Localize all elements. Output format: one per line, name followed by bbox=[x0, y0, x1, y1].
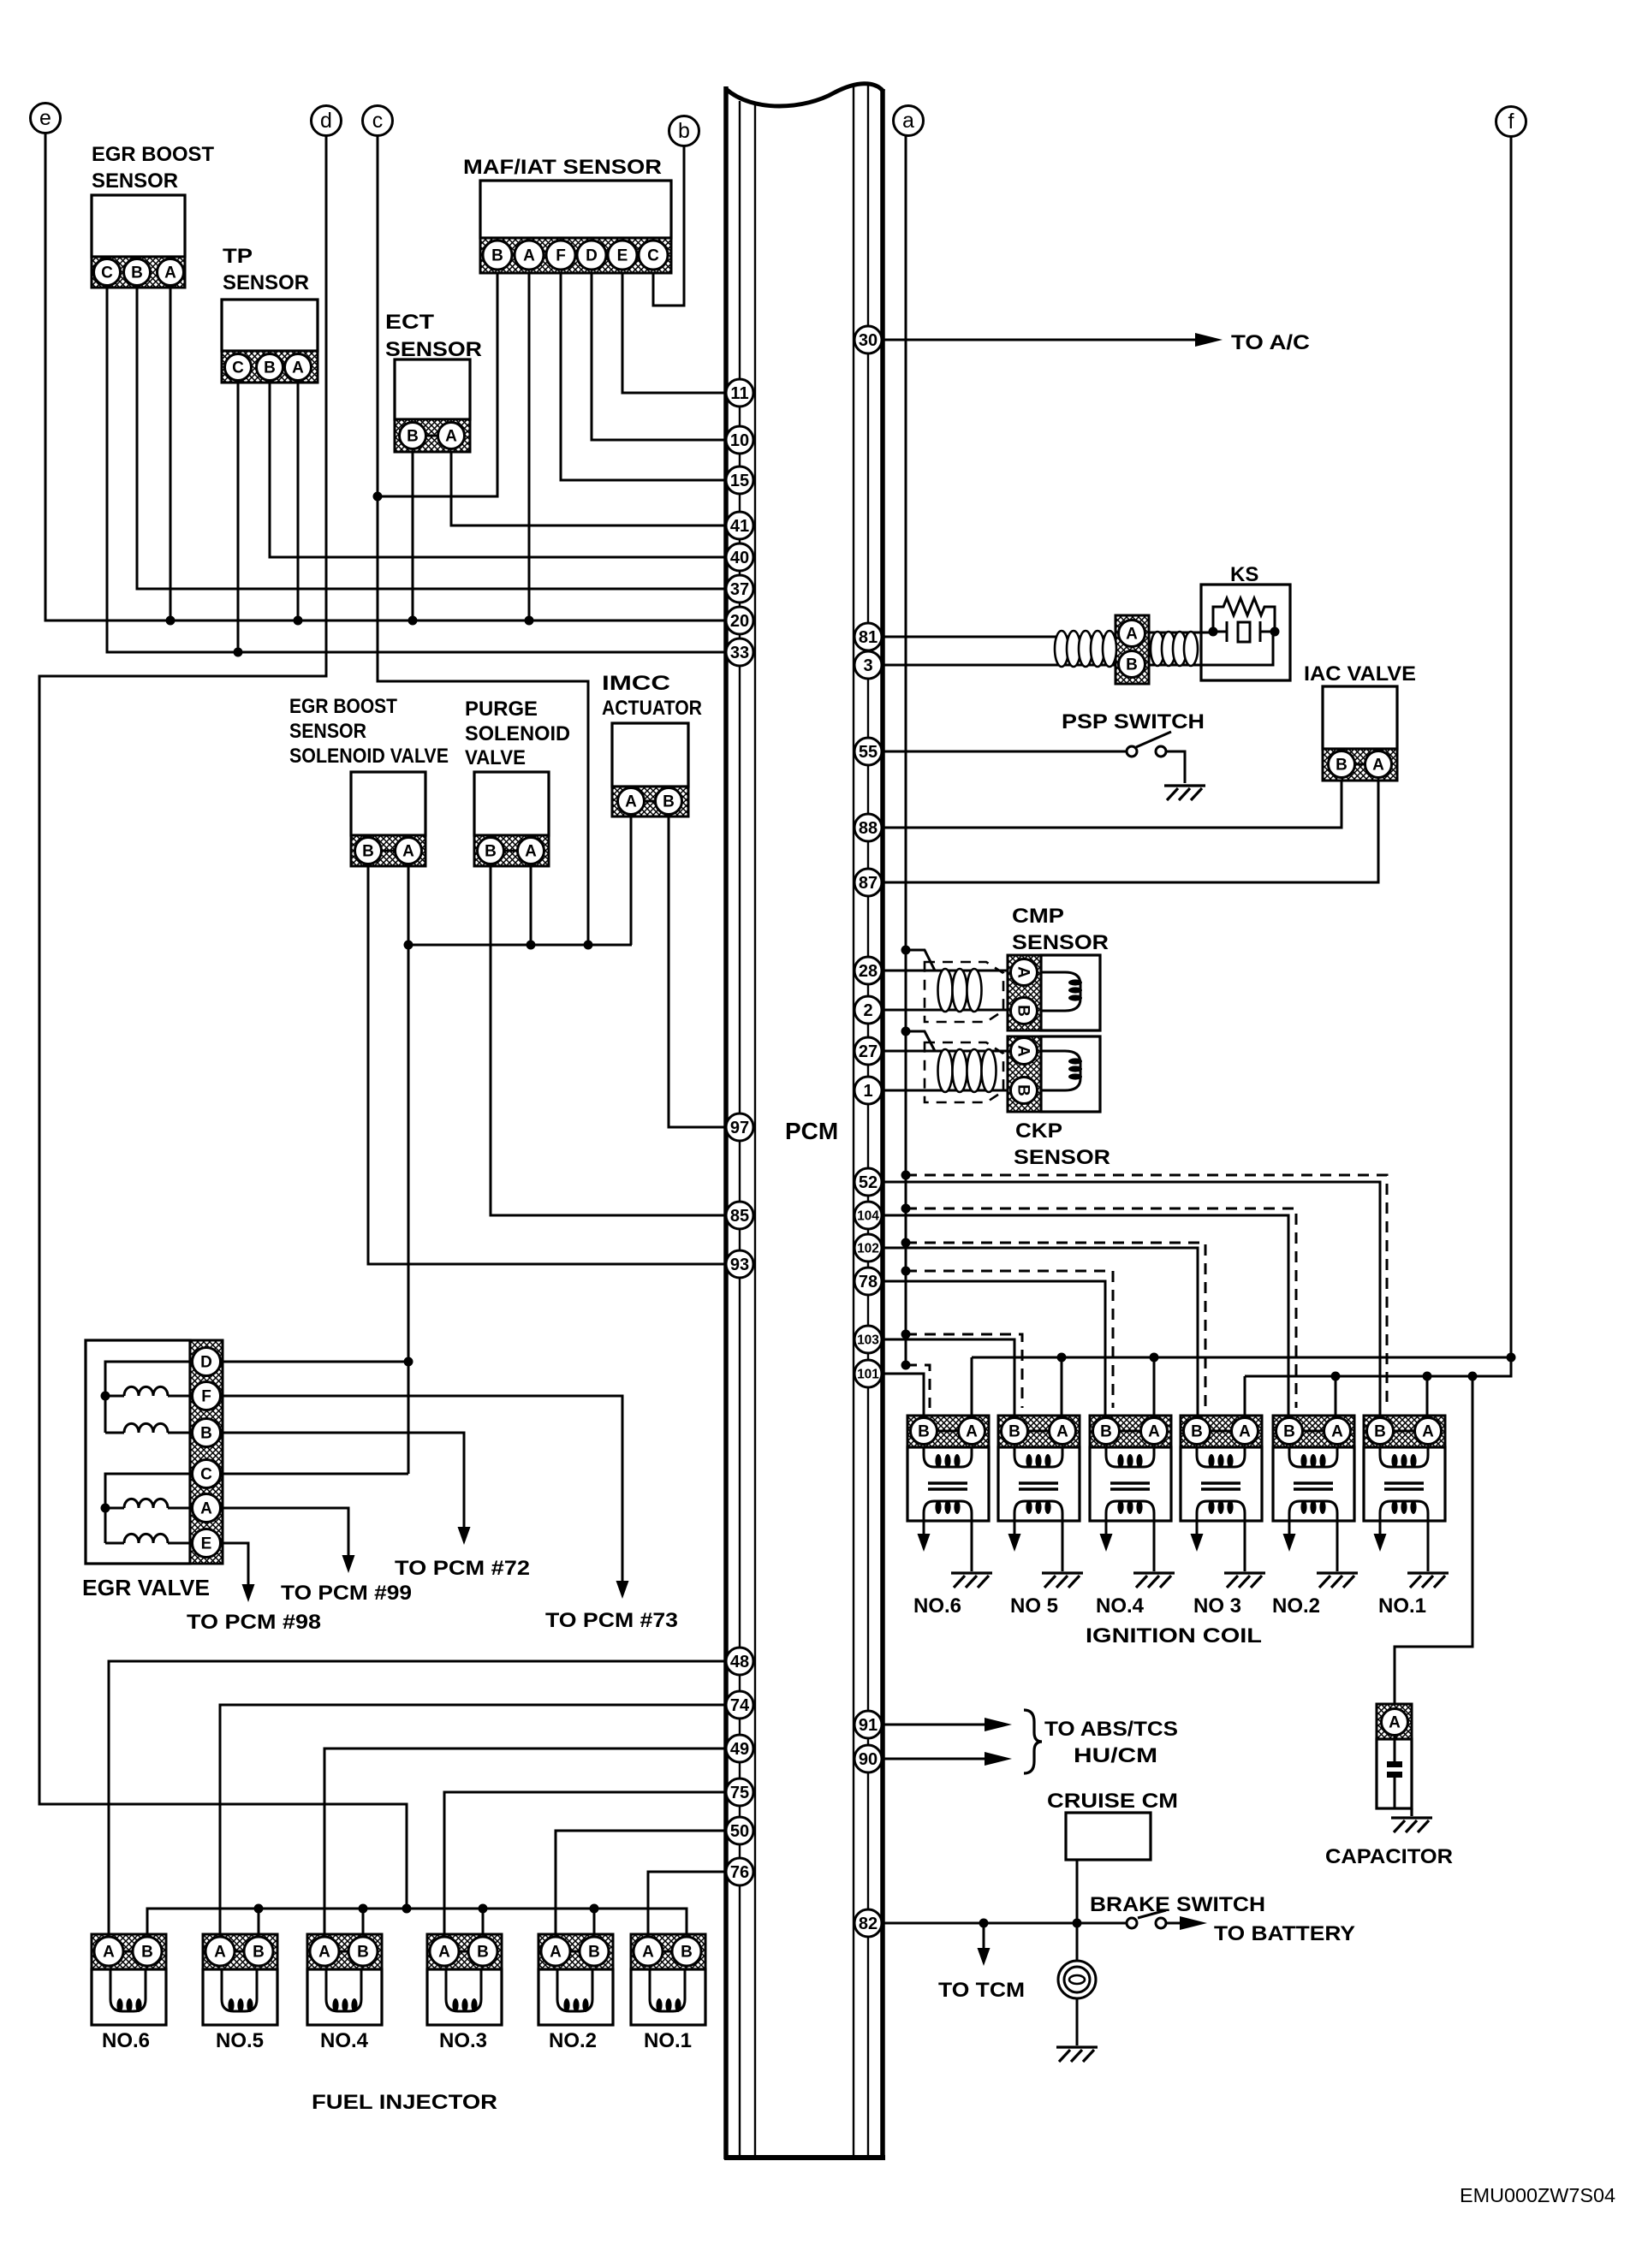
svg-text:A: A bbox=[523, 247, 535, 265]
PCM pin 91 bbox=[854, 1711, 882, 1738]
PCM pin 10 bbox=[726, 426, 753, 454]
ignition coil NO.2 ground bbox=[1317, 1571, 1358, 1574]
wire shield bus to CMP A bbox=[906, 950, 935, 971]
svg-text:NO.1: NO.1 bbox=[644, 2029, 692, 2052]
ignition coil NO.1 ground bbox=[1407, 1571, 1449, 1574]
svg-text:FUEL INJECTOR: FUEL INJECTOR bbox=[312, 2091, 497, 2114]
svg-text:PSP SWITCH: PSP SWITCH bbox=[1062, 710, 1205, 733]
wire PCM pin 103 to ignition coil bbox=[882, 1339, 1014, 1418]
svg-text:B: B bbox=[1336, 757, 1348, 775]
CMP SENSOR pin A bbox=[1011, 959, 1038, 986]
shield conduit right of KS connector bbox=[1151, 632, 1164, 666]
fuel injector NO.5 body bbox=[203, 1969, 277, 2025]
svg-text:HU/CM: HU/CM bbox=[1074, 1744, 1157, 1767]
PURGE SOLENOID VALVE connector strip bbox=[474, 835, 549, 866]
svg-text:ACTUATOR: ACTUATOR bbox=[602, 697, 702, 720]
wire bus1 to coil NO.6 A bbox=[971, 1357, 973, 1418]
CKP SENSOR connector strip bbox=[1008, 1036, 1041, 1112]
svg-text:A: A bbox=[292, 359, 304, 377]
svg-text:74: 74 bbox=[730, 1696, 750, 1715]
wire PCM pin 88 to IAC B bbox=[882, 781, 1342, 828]
connector e bbox=[31, 104, 61, 134]
fuel injector NO.1 A-B link bbox=[662, 1950, 673, 1953]
wire EGR boost sensor C / TP C to PCM pin 33 bbox=[107, 288, 726, 652]
arrow to PCM #99 bbox=[342, 1555, 355, 1573]
svg-text:e: e bbox=[39, 106, 51, 130]
fuel injector NO.3 body bbox=[427, 1969, 502, 2025]
junction shield bus pin 104 bbox=[901, 1204, 911, 1214]
CKP SENSOR pin B bbox=[1011, 1078, 1038, 1104]
svg-text:SOLENOID VALVE: SOLENOID VALVE bbox=[289, 745, 449, 768]
svg-text:A: A bbox=[1126, 626, 1138, 644]
PURGE SOLENOID VALVE pin B bbox=[478, 838, 504, 864]
CKP harness conduit bbox=[938, 1049, 953, 1092]
wire PCM pin 28 to CMP A bbox=[882, 970, 1011, 972]
junction MAF A / pin20 bus bbox=[525, 616, 534, 626]
wire to TCM bbox=[983, 1923, 985, 1948]
fuel injector NO.6 connector strip bbox=[92, 1934, 166, 1969]
wire EGR valve D to solenoid A feed bbox=[220, 1361, 408, 1363]
ignition coil NO 5 primary winding bbox=[1014, 1447, 1062, 1467]
ignition coil NO.6 ground bbox=[951, 1571, 992, 1574]
svg-text:A: A bbox=[164, 264, 176, 282]
ignition coil NO.2 secondary winding bbox=[1289, 1501, 1337, 1521]
junction shield bus pin 101 bbox=[901, 1361, 911, 1370]
CMP SENSOR pin B bbox=[1011, 998, 1038, 1024]
svg-text:49: 49 bbox=[730, 1740, 749, 1759]
wire MAF B to connector c wire bbox=[378, 273, 497, 496]
CKP SENSOR pickup coil bbox=[1041, 1051, 1080, 1090]
svg-text:EMU000ZW7S04: EMU000ZW7S04 bbox=[1460, 2184, 1615, 2206]
junction EGR A / pin20 bus bbox=[166, 616, 176, 626]
svg-text:A: A bbox=[1239, 1423, 1251, 1441]
ignition coil NO.1 ground lead bbox=[1427, 1521, 1430, 1571]
fuel injector NO.3 pin A bbox=[430, 1937, 459, 1966]
svg-text:F: F bbox=[556, 247, 566, 265]
svg-text:97: 97 bbox=[730, 1119, 749, 1137]
EGR VALVE coil L3 (to A) bbox=[105, 1507, 124, 1510]
ignition coil NO 5 B-A link bbox=[1028, 1430, 1049, 1433]
svg-text:41: 41 bbox=[730, 517, 749, 536]
svg-text:E: E bbox=[617, 247, 628, 265]
wire PCM pin 75 to injector NO.3 A bbox=[444, 1792, 726, 1938]
wire PCM pin 76 to injector NO.1 A bbox=[648, 1872, 726, 1938]
wire EGR boost sensor B to PCM pin 37 bbox=[137, 288, 726, 589]
fuel injector NO.3 A-B link bbox=[458, 1950, 469, 1953]
ignition coil NO 5 body bbox=[998, 1447, 1080, 1521]
ignition coil NO 3 connector strip bbox=[1181, 1416, 1262, 1447]
PCM pin 97 bbox=[726, 1113, 753, 1141]
PCM pin 27 bbox=[854, 1037, 882, 1065]
svg-text:50: 50 bbox=[730, 1822, 749, 1841]
svg-text:3: 3 bbox=[863, 656, 872, 675]
svg-text:40: 40 bbox=[730, 549, 749, 567]
wire PCM pin 3 to KS connector B bbox=[882, 664, 1117, 667]
EGR VALVE body bbox=[86, 1340, 190, 1564]
svg-text:A: A bbox=[445, 428, 457, 446]
EGR VALVE pin B bbox=[193, 1419, 221, 1447]
junction bus1 / NO.4 A bbox=[1150, 1353, 1159, 1363]
brake switch contact left bbox=[1127, 1918, 1137, 1928]
svg-text:NO.2: NO.2 bbox=[549, 2029, 597, 2052]
svg-text:B: B bbox=[1014, 1084, 1032, 1096]
CMP harness conduit bbox=[938, 969, 953, 1012]
ignition coil NO.6 secondary winding bbox=[924, 1501, 972, 1521]
wire PCM pin 78 to ignition coil bbox=[882, 1281, 1105, 1418]
ignition coil NO.4 ground bbox=[1133, 1571, 1175, 1574]
svg-text:A: A bbox=[550, 1944, 562, 1962]
ignition coil NO.1 pin B bbox=[1367, 1418, 1394, 1445]
ignition coil NO.2 core bbox=[1294, 1481, 1333, 1485]
ignition coil NO 3 B-A link bbox=[1211, 1430, 1231, 1433]
ignition coil NO.1 body bbox=[1364, 1447, 1445, 1521]
wire IMCC B to PCM pin 97 bbox=[669, 816, 726, 1127]
wire PCM pin 90 to ABS/TCS bbox=[882, 1758, 985, 1760]
PCM pin 102 bbox=[854, 1234, 882, 1262]
EGR BOOST SENSOR pin A bbox=[158, 259, 184, 286]
wire PCM pin 87 to IAC A bbox=[882, 781, 1378, 882]
junction EGR solenoid A / feed bus bbox=[404, 941, 413, 950]
junction bus2 / NO.1 A bbox=[1423, 1372, 1432, 1381]
svg-text:104: 104 bbox=[857, 1209, 879, 1224]
svg-text:A: A bbox=[966, 1423, 978, 1441]
PCM pin 40 bbox=[726, 543, 753, 571]
wire ECT B drop bbox=[412, 452, 414, 620]
junction injector B / bus bbox=[590, 1904, 599, 1914]
junction TP A / pin20 bus bbox=[294, 616, 303, 626]
svg-text:B: B bbox=[362, 843, 374, 861]
PCM pin 28 bbox=[854, 957, 882, 984]
svg-text:CAPACITOR: CAPACITOR bbox=[1325, 1845, 1453, 1868]
wire KS connector A to sensor bbox=[1149, 632, 1213, 634]
svg-text:A: A bbox=[402, 843, 414, 861]
ignition coil NO.1 spark output bbox=[1379, 1521, 1382, 1535]
ignition coil supply bus 2 bbox=[1245, 1357, 1511, 1376]
ignition coil NO.6 ground lead bbox=[971, 1521, 973, 1571]
EGR VALVE connector strip bbox=[190, 1340, 223, 1564]
junction injector B / bus bbox=[254, 1904, 264, 1914]
svg-text:B: B bbox=[1374, 1423, 1386, 1441]
svg-text:EGR BOOST: EGR BOOST bbox=[289, 695, 397, 718]
IMCC ACTUATOR pin A bbox=[618, 788, 645, 815]
wire PCM pin 30 to A/C bbox=[882, 339, 1195, 341]
junction injector B / bus bbox=[479, 1904, 488, 1914]
PCM pin 52 bbox=[854, 1168, 882, 1196]
PCM pin 81 bbox=[854, 623, 882, 650]
KS harness pin B bbox=[1119, 651, 1145, 678]
fuel injector NO.3 connector strip bbox=[427, 1934, 502, 1969]
svg-text:A: A bbox=[1422, 1423, 1434, 1441]
ignition coil NO.2 ground lead bbox=[1336, 1521, 1339, 1571]
svg-text:TO TCM: TO TCM bbox=[938, 1979, 1025, 2002]
MAF/IAT SENSOR pin D bbox=[577, 240, 606, 270]
TP SENSOR pin C bbox=[225, 354, 252, 381]
fuel injector NO.1 coil bbox=[650, 1969, 685, 2011]
svg-text:81: 81 bbox=[859, 628, 878, 647]
svg-text:15: 15 bbox=[730, 472, 749, 490]
junction d wire / injector bus bbox=[402, 1904, 412, 1914]
wire sensor ground bus to PCM pin 20 bbox=[45, 133, 726, 620]
svg-text:SENSOR: SENSOR bbox=[1014, 1146, 1110, 1169]
PCM pin 3 bbox=[854, 651, 882, 679]
junction shield bus pin 52 bbox=[901, 1171, 911, 1180]
svg-text:2: 2 bbox=[863, 1001, 872, 1020]
IAC VALVE pin A bbox=[1365, 751, 1392, 778]
wire lamp to ground bbox=[1076, 1998, 1079, 2045]
wire EGR valve A to PCM #99 bbox=[220, 1508, 348, 1555]
svg-text:91: 91 bbox=[859, 1716, 878, 1735]
svg-text:A: A bbox=[1148, 1423, 1160, 1441]
wire PCM pin 2 to CMP B bbox=[882, 1009, 1011, 1012]
PCM pin 30 bbox=[854, 326, 882, 353]
svg-text:B: B bbox=[253, 1944, 265, 1962]
junction 82 bus / TCM branch bbox=[979, 1919, 989, 1928]
PSP switch contact right bbox=[1156, 746, 1166, 757]
EGR VALVE internal wire C to coil bus bbox=[105, 1474, 193, 1508]
shield wire for pin 102 circuit bbox=[906, 1243, 1205, 1408]
wire connector d down-left to injector feed bbox=[39, 135, 407, 1909]
wire cruise CM drop bbox=[1076, 1860, 1079, 1961]
ignition coil NO 5 spark output bbox=[1014, 1521, 1016, 1535]
KS internal resistor bbox=[1213, 598, 1275, 632]
svg-text:C: C bbox=[647, 247, 659, 265]
IAC VALVE pin B bbox=[1329, 751, 1355, 778]
wire PCM pin 101 to ignition coil bbox=[882, 1374, 924, 1418]
connector a bbox=[894, 106, 924, 136]
junction EGR valve D feed bbox=[404, 1357, 413, 1367]
wire EGR solenoid A down to EGR valve bbox=[408, 866, 410, 1474]
connector b bbox=[669, 116, 699, 146]
junction shield bus pin 78 bbox=[901, 1267, 911, 1276]
ignition coil NO 3 core bbox=[1201, 1481, 1240, 1485]
MAF/IAT SENSOR pin A bbox=[515, 240, 544, 270]
wire MAF C to connector b bbox=[653, 145, 684, 306]
KS harness pin A bbox=[1119, 620, 1145, 647]
svg-text:B: B bbox=[1008, 1423, 1020, 1441]
ECT SENSOR wire B-A link bbox=[426, 435, 437, 437]
wire PCM pin 1 to CKP B bbox=[882, 1089, 1011, 1092]
wire PCM pin 102 to ignition coil bbox=[882, 1248, 1198, 1418]
svg-text:B: B bbox=[131, 264, 143, 282]
svg-text:NO.3: NO.3 bbox=[439, 2029, 487, 2052]
lamp ground bbox=[1056, 2045, 1098, 2048]
fuel injector NO.2 connector strip bbox=[538, 1934, 613, 1969]
wire connector f down to coil bus bbox=[1510, 137, 1513, 1357]
svg-text:f: f bbox=[1508, 110, 1514, 134]
ignition coil NO.4 ground lead bbox=[1153, 1521, 1156, 1571]
ignition coil NO.2 pin A bbox=[1324, 1418, 1351, 1445]
svg-text:48: 48 bbox=[730, 1653, 749, 1671]
svg-text:B: B bbox=[1100, 1423, 1112, 1441]
EGR BOOST SENSOR SOLENOID VALVE B-A link bbox=[382, 850, 395, 852]
wire coil bus to capacitor bbox=[1395, 1376, 1472, 1706]
PCM pin 103 bbox=[854, 1326, 882, 1353]
MAF/IAT SENSOR pin F bbox=[546, 240, 575, 270]
ignition coil NO.4 B-A link bbox=[1120, 1430, 1140, 1433]
svg-text:NO.4: NO.4 bbox=[1096, 1594, 1145, 1618]
PCM pin 20 bbox=[726, 607, 753, 634]
junction ECT B / pin20 bus bbox=[408, 616, 418, 626]
fuel injector NO.1 connector strip bbox=[631, 1934, 705, 1969]
junction shield bus pin 103 bbox=[901, 1330, 911, 1339]
brake switch contact right bbox=[1156, 1918, 1166, 1928]
stop lamp bbox=[1058, 1961, 1096, 1998]
ignition coil NO.4 body bbox=[1090, 1447, 1171, 1521]
svg-text:a: a bbox=[902, 109, 914, 133]
CAPACITOR connector bbox=[1377, 1704, 1412, 1739]
svg-text:27: 27 bbox=[859, 1042, 878, 1061]
PCM pin 101 bbox=[854, 1360, 882, 1387]
IAC VALVE body bbox=[1323, 686, 1397, 749]
svg-text:MAF/IAT SENSOR: MAF/IAT SENSOR bbox=[463, 156, 662, 179]
svg-text:NO.4: NO.4 bbox=[320, 2029, 369, 2052]
svg-text:TO PCM #99: TO PCM #99 bbox=[281, 1582, 412, 1605]
svg-text:TO BATTERY: TO BATTERY bbox=[1214, 1922, 1355, 1945]
wire PCM pin 91 to ABS/TCS bbox=[882, 1724, 985, 1726]
ignition coil NO.6 B-A link bbox=[937, 1430, 958, 1433]
EGR BOOST SENSOR SOLENOID VALVE body bbox=[351, 772, 425, 835]
svg-text:B: B bbox=[1283, 1423, 1295, 1441]
fuel injector NO.2 body bbox=[538, 1969, 613, 2025]
svg-text:d: d bbox=[320, 109, 332, 133]
svg-text:37: 37 bbox=[730, 580, 749, 599]
svg-text:SENSOR: SENSOR bbox=[223, 271, 309, 294]
svg-text:EGR VALVE: EGR VALVE bbox=[82, 1575, 210, 1600]
CMP SENSOR body bbox=[1041, 955, 1100, 1030]
ignition coil NO.6 connector strip bbox=[907, 1416, 989, 1447]
junction PURGE A / feed bus bbox=[527, 941, 536, 950]
svg-text:VALVE: VALVE bbox=[465, 746, 526, 769]
svg-text:A: A bbox=[103, 1944, 115, 1962]
CMP shield outline bbox=[925, 962, 1003, 1022]
ignition coil NO 3 ground lead bbox=[1244, 1521, 1246, 1571]
shield wire for pin 104 circuit bbox=[906, 1208, 1296, 1408]
fuel injector NO.5 connector strip bbox=[203, 1934, 277, 1969]
svg-text:B: B bbox=[1191, 1423, 1203, 1441]
svg-text:CKP: CKP bbox=[1015, 1119, 1062, 1143]
svg-text:A: A bbox=[1331, 1423, 1343, 1441]
wire EGR valve E to PCM #98 bbox=[220, 1543, 248, 1584]
svg-text:52: 52 bbox=[859, 1173, 878, 1192]
MAF/IAT SENSOR body bbox=[480, 181, 671, 238]
injector B stub bbox=[593, 1909, 596, 1938]
EGR VALVE pin D bbox=[193, 1348, 221, 1376]
TP SENSOR body bbox=[222, 300, 318, 351]
junction 82 bus / cruise branch bbox=[1073, 1919, 1082, 1928]
svg-text:20: 20 bbox=[730, 612, 749, 631]
svg-text:A: A bbox=[318, 1944, 330, 1962]
wire EGR valve B to PCM #72 bbox=[220, 1433, 464, 1527]
PCM pin 2 bbox=[854, 996, 882, 1024]
PCM pin 76 bbox=[726, 1858, 753, 1885]
ignition coil NO.4 secondary winding bbox=[1106, 1501, 1154, 1521]
fuel injector NO.1 pin B bbox=[672, 1937, 701, 1966]
fuel injector NO.1 body bbox=[631, 1969, 705, 2025]
svg-text:B: B bbox=[1014, 1005, 1032, 1017]
EGR BOOST SENSOR connector strip bbox=[92, 257, 185, 288]
junction bus2 / capacitor wire bbox=[1468, 1372, 1478, 1381]
svg-text:TP: TP bbox=[223, 245, 253, 268]
arrow to PCM #73 bbox=[616, 1581, 629, 1599]
junction shield bus / CKP bbox=[901, 1027, 911, 1036]
svg-text:78: 78 bbox=[859, 1273, 878, 1291]
arrow to A/C bbox=[1195, 333, 1223, 347]
KS terminal node right bbox=[1270, 627, 1280, 637]
svg-text:IGNITION COIL: IGNITION COIL bbox=[1086, 1624, 1262, 1648]
svg-text:IMCC: IMCC bbox=[602, 672, 670, 695]
arrow to PCM #98 bbox=[242, 1584, 255, 1602]
svg-text:93: 93 bbox=[730, 1256, 749, 1274]
wire EGR valve C external bbox=[220, 1473, 408, 1475]
PCM pin 78 bbox=[854, 1268, 882, 1295]
injector B stub bbox=[258, 1909, 260, 1938]
ignition coil NO.4 pin A bbox=[1141, 1418, 1168, 1445]
svg-text:B: B bbox=[200, 1425, 212, 1443]
svg-text:76: 76 bbox=[730, 1863, 749, 1882]
shield conduit left of KS connector bbox=[1055, 631, 1068, 667]
svg-text:CMP: CMP bbox=[1012, 905, 1064, 928]
svg-text:103: 103 bbox=[857, 1333, 879, 1348]
CMP SENSOR pickup coil bbox=[1041, 972, 1080, 1011]
fuel injector NO.1 pin A bbox=[634, 1937, 663, 1966]
fuel injector NO.3 coil bbox=[446, 1969, 481, 2011]
svg-text:87: 87 bbox=[859, 874, 878, 893]
fuel injector NO.5 pin B bbox=[244, 1937, 273, 1966]
ignition coil NO 5 ground bbox=[1042, 1571, 1083, 1574]
svg-text:1: 1 bbox=[863, 1082, 872, 1101]
EGR BOOST SENSOR pin C bbox=[94, 259, 121, 286]
ignition coil NO 3 pin B bbox=[1184, 1418, 1211, 1445]
IMCC ACTUATOR body bbox=[612, 723, 688, 787]
svg-text:B: B bbox=[681, 1944, 693, 1962]
svg-text:NO 5: NO 5 bbox=[1010, 1594, 1058, 1618]
svg-text:A: A bbox=[1372, 757, 1384, 775]
ignition coil NO.1 B-A link bbox=[1394, 1430, 1414, 1433]
ignition coil NO 3 primary winding bbox=[1197, 1447, 1245, 1467]
svg-text:SENSOR: SENSOR bbox=[92, 169, 178, 193]
fuel injector NO.4 body bbox=[307, 1969, 382, 2025]
svg-text:C: C bbox=[200, 1466, 212, 1484]
svg-text:90: 90 bbox=[859, 1750, 878, 1769]
PURGE SOLENOID VALVE body bbox=[474, 772, 549, 835]
wire bus2 to coil NO.2 A bbox=[1335, 1376, 1337, 1418]
brace for ABS/TCS bbox=[1024, 1710, 1042, 1773]
junction injector B / bus bbox=[359, 1904, 368, 1914]
svg-text:NO.6: NO.6 bbox=[102, 2029, 150, 2052]
ignition coil NO 5 connector strip bbox=[998, 1416, 1080, 1447]
ECT SENSOR body bbox=[395, 359, 470, 419]
svg-text:B: B bbox=[588, 1944, 600, 1962]
ignition coil NO.2 primary winding bbox=[1289, 1447, 1337, 1467]
svg-text:NO.6: NO.6 bbox=[913, 1594, 961, 1618]
svg-text:82: 82 bbox=[859, 1915, 878, 1933]
ignition coil NO.2 pin B bbox=[1276, 1418, 1303, 1445]
ignition coil NO.4 connector strip bbox=[1090, 1416, 1171, 1447]
svg-text:85: 85 bbox=[730, 1207, 749, 1226]
svg-text:B: B bbox=[407, 428, 419, 446]
wire PCM pin 48 to injector NO.6 A bbox=[109, 1661, 726, 1938]
shield wire for pin 101 circuit bbox=[906, 1365, 930, 1408]
CMP SENSOR connector strip bbox=[1008, 955, 1041, 1030]
svg-text:75: 75 bbox=[730, 1784, 749, 1802]
injector B stub bbox=[482, 1909, 485, 1938]
svg-text:A: A bbox=[1056, 1423, 1068, 1441]
svg-text:NO 3: NO 3 bbox=[1193, 1594, 1241, 1618]
svg-text:A: A bbox=[1014, 1045, 1032, 1057]
EGR VALVE coil L4 (to E) bbox=[105, 1542, 124, 1545]
svg-text:NO.2: NO.2 bbox=[1272, 1594, 1320, 1618]
ignition coil NO 5 ground lead bbox=[1062, 1521, 1064, 1571]
